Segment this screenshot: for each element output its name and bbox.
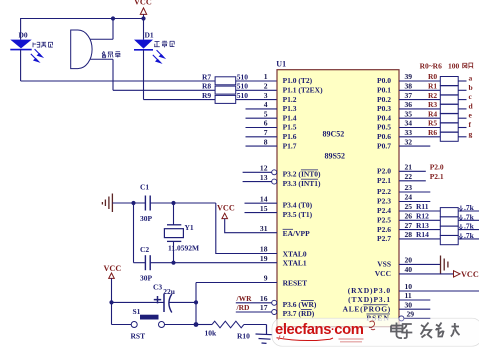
pin 4 P1.3 <box>246 108 278 110</box>
svg-text:P3.3 (INT1): P3.3 (INT1) <box>283 179 321 188</box>
svg-text:P0.3: P0.3 <box>377 104 391 113</box>
wire row pin2 <box>113 89 215 91</box>
svg-text:R14: R14 <box>416 230 429 239</box>
ground (crystal, left-pointing) <box>102 194 112 213</box>
svg-text:/RD: /RD <box>236 303 251 312</box>
wire RESET to pin 9 <box>196 282 277 284</box>
svg-text:30P: 30P <box>140 274 153 283</box>
node junction D1/VCC <box>141 16 145 20</box>
svg-text:34: 34 <box>405 119 413 128</box>
wire C1 right to jog <box>150 202 216 204</box>
svg-text:R7: R7 <box>202 72 211 81</box>
svg-text:d: d <box>469 101 474 110</box>
svg-text:P2.0: P2.0 <box>430 163 444 172</box>
svg-text:Y1: Y1 <box>185 223 194 232</box>
svg-text:R8: R8 <box>202 82 211 91</box>
svg-text:c: c <box>469 92 473 101</box>
svg-text:P0.4: P0.4 <box>377 113 391 122</box>
svg-text:P2.7: P2.7 <box>377 234 391 243</box>
pin 6 P1.5 <box>246 127 278 129</box>
resistor R10 10k <box>196 321 267 340</box>
svg-text:XTAL0: XTAL0 <box>283 250 307 259</box>
pin 25 P2.4 <box>399 210 479 212</box>
svg-text:P2.5: P2.5 <box>377 216 391 225</box>
svg-text:P1.6: P1.6 <box>283 132 297 141</box>
svg-text:37: 37 <box>405 91 413 100</box>
svg-text:f: f <box>469 120 472 129</box>
svg-text:RST: RST <box>131 331 146 340</box>
pin 29 PSEN <box>399 316 404 321</box>
svg-text:11.0592M: 11.0592M <box>168 244 199 253</box>
svg-text:27: 27 <box>405 221 413 230</box>
svg-text:23: 23 <box>405 183 413 192</box>
pin 17 P3.7/RD <box>236 311 272 313</box>
svg-text:R6: R6 <box>428 128 437 137</box>
pin 30 ALE/PROG <box>399 308 430 310</box>
capacitor C1 30P <box>140 183 153 224</box>
svg-text:19: 19 <box>260 254 268 263</box>
pin 39 P0.0 <box>399 80 440 82</box>
svg-text:1: 1 <box>264 72 268 81</box>
svg-text:36: 36 <box>405 100 413 109</box>
svg-text:22: 22 <box>405 172 413 181</box>
wire jog down to XTAL0 <box>216 203 277 254</box>
svg-text:28: 28 <box>405 230 413 239</box>
label 报警灯 (alarm lamp) <box>33 42 53 47</box>
node junction C1 left <box>131 201 135 205</box>
svg-text:VCC: VCC <box>104 264 122 273</box>
pin 12 P3.2/INT0 <box>243 171 272 173</box>
svg-text:P2.2: P2.2 <box>377 187 391 196</box>
node junction Y1 top <box>171 201 175 205</box>
svg-text:25: 25 <box>405 202 413 211</box>
svg-text:elecfans·com: elecfans·com <box>275 322 364 338</box>
svg-text:22u: 22u <box>163 287 175 296</box>
svg-text:100: 100 <box>448 61 460 70</box>
svg-text:P0.1: P0.1 <box>377 86 391 95</box>
watermark dianzifashaoyou (gray) <box>391 323 460 339</box>
svg-text:3: 3 <box>264 91 268 100</box>
node junction C3 left <box>109 300 113 304</box>
svg-text:(TXD)P3.1: (TXD)P3.1 <box>348 295 391 304</box>
power VCC (top) <box>134 0 152 18</box>
node junction RST <box>194 322 199 327</box>
svg-text:15: 15 <box>260 204 268 213</box>
svg-text:8: 8 <box>264 137 268 146</box>
node junction C3 right <box>194 300 198 304</box>
svg-text:510: 510 <box>237 91 249 100</box>
pin 20 VSS <box>399 263 440 265</box>
svg-text:a: a <box>469 74 473 83</box>
pin 26 P2.5 <box>399 219 479 221</box>
svg-text:R4: R4 <box>428 109 437 118</box>
svg-text:R0~R6: R0~R6 <box>420 61 442 70</box>
svg-text:2: 2 <box>264 82 268 91</box>
svg-text:.7k: .7k <box>464 212 475 221</box>
svg-text:20: 20 <box>405 256 413 265</box>
svg-text:21: 21 <box>405 163 413 172</box>
capacitor C3 22u <box>153 283 196 313</box>
svg-text:.7k: .7k <box>464 231 475 240</box>
svg-text:39: 39 <box>405 72 413 81</box>
resistor R8 <box>202 82 277 95</box>
svg-text:P1.4: P1.4 <box>283 113 297 122</box>
pin 40 VCC <box>399 273 454 275</box>
svg-text:10: 10 <box>405 282 413 291</box>
svg-text:33: 33 <box>405 128 413 137</box>
power VCC (EA) <box>217 204 277 233</box>
pin 8 P1.7 <box>246 145 278 147</box>
resistor R7 <box>202 72 277 85</box>
node junction Y1 bottom <box>171 261 175 265</box>
svg-text:C3: C3 <box>153 283 162 292</box>
svg-text:D0: D0 <box>19 31 28 40</box>
svg-text:P1.1 (T2EX): P1.1 (T2EX) <box>283 86 324 95</box>
LED D0 <box>10 18 42 81</box>
svg-text:R12: R12 <box>416 212 429 221</box>
svg-text:P0.7: P0.7 <box>377 141 391 150</box>
svg-text:P2.4: P2.4 <box>377 206 391 215</box>
svg-text:P3.4 (T0): P3.4 (T0) <box>283 200 313 209</box>
pin 11 P3.1 TXD <box>399 299 430 301</box>
svg-text:P3.2 (INT0): P3.2 (INT0) <box>283 170 321 179</box>
svg-text:P1.7: P1.7 <box>283 141 297 150</box>
pin 15 P3.5 <box>245 212 278 214</box>
svg-text:D1: D1 <box>145 31 154 40</box>
svg-text:VCC: VCC <box>217 204 235 213</box>
IC U1 89C52 <box>276 60 399 327</box>
pin 13 P3.3/INT1 <box>243 181 272 183</box>
watermark elecfans.com logo <box>275 321 375 342</box>
watermark band <box>272 318 479 346</box>
svg-text:P2.6: P2.6 <box>377 225 391 234</box>
svg-text:R3: R3 <box>428 100 437 109</box>
svg-text:R9: R9 <box>202 91 211 100</box>
svg-text:R0: R0 <box>428 72 437 81</box>
pin 21 P2.0 <box>399 170 426 172</box>
wire RESET vertical <box>195 283 197 325</box>
svg-text:b: b <box>469 83 473 92</box>
svg-text:P1.5: P1.5 <box>283 123 297 132</box>
svg-text:11: 11 <box>405 291 412 300</box>
pin 7 P1.6 <box>246 136 278 138</box>
pin 36 P0.3 <box>399 108 440 110</box>
svg-text:P2.1: P2.1 <box>377 176 391 185</box>
pin 28 P2.7 <box>399 238 479 240</box>
wire C1-C2 left vertical <box>133 203 135 263</box>
svg-text:P0.5: P0.5 <box>377 123 391 132</box>
pin 10 P3.0 RXD <box>399 290 479 292</box>
pin 29 overlay redraw <box>399 316 430 321</box>
ground (R10) <box>256 325 273 344</box>
pin 23 P2.2 <box>399 191 430 193</box>
label 蜂鸣器 (buzzer) <box>102 52 120 58</box>
svg-text:/WR: /WR <box>236 294 253 303</box>
pin 24 P2.3 <box>399 201 430 203</box>
svg-text:89C52: 89C52 <box>323 130 345 139</box>
wire to C3 <box>112 301 164 303</box>
svg-text:P2.0: P2.0 <box>377 167 391 176</box>
svg-text:P1.2: P1.2 <box>283 95 297 104</box>
svg-text:5: 5 <box>264 109 268 118</box>
svg-text:XTAL1: XTAL1 <box>283 259 307 268</box>
wire buzzer top to rail <box>112 19 114 40</box>
svg-text:P1.0 (T2): P1.0 (T2) <box>283 76 313 85</box>
svg-text:26: 26 <box>405 212 413 221</box>
node junction buzzer top <box>111 16 115 20</box>
power VCC (right) <box>454 271 461 277</box>
svg-text:7: 7 <box>264 128 268 137</box>
pin 35 P0.4 <box>399 117 440 119</box>
svg-text:g: g <box>469 129 473 138</box>
svg-text:17: 17 <box>260 303 268 312</box>
svg-text:RESET: RESET <box>283 279 308 288</box>
pin 16 P3.6/WR <box>236 302 272 304</box>
svg-text:U1: U1 <box>276 60 286 69</box>
svg-text:35: 35 <box>405 109 413 118</box>
svg-text:P3.5 (T1): P3.5 (T1) <box>283 210 313 219</box>
svg-text:VCC: VCC <box>134 0 152 7</box>
svg-text:P0.0: P0.0 <box>377 76 391 85</box>
capacitor C2 30P <box>134 245 153 283</box>
svg-text:R1: R1 <box>428 82 437 91</box>
buzzer 蜂鸣器 <box>71 30 113 69</box>
svg-text:S1: S1 <box>133 307 141 316</box>
wire row pin3 <box>144 99 216 101</box>
svg-text:R5: R5 <box>428 119 437 128</box>
svg-text:P2.1: P2.1 <box>430 172 444 181</box>
svg-text:ALE(PROG): ALE(PROG) <box>343 304 391 313</box>
pin 22 P2.1 <box>399 180 426 182</box>
svg-text:P3.7 (RD): P3.7 (RD) <box>283 309 315 318</box>
resistor R9 <box>202 91 277 104</box>
svg-text:R10: R10 <box>237 331 250 340</box>
svg-text:14: 14 <box>260 194 268 203</box>
svg-text:40: 40 <box>405 265 413 274</box>
label 正常灯 (normal lamp) <box>154 41 174 48</box>
pin 27 P2.6 <box>399 229 479 231</box>
svg-text:13: 13 <box>260 173 268 182</box>
svg-text:30P: 30P <box>140 214 153 223</box>
svg-text:e: e <box>469 111 473 120</box>
svg-text:P2.3: P2.3 <box>377 197 391 206</box>
svg-text:18: 18 <box>260 245 268 254</box>
svg-text:9: 9 <box>264 274 268 283</box>
pin 14 P3.4 <box>245 202 278 204</box>
wire row pin1 <box>21 80 216 82</box>
pin 34 P0.5 <box>399 127 440 129</box>
wire gnd to C1 <box>112 202 145 204</box>
pin 38 P0.1 <box>399 89 440 91</box>
svg-text:510: 510 <box>237 72 249 81</box>
svg-text:510: 510 <box>237 82 249 91</box>
svg-text:4: 4 <box>264 100 268 109</box>
svg-text:P1.3: P1.3 <box>283 104 297 113</box>
svg-text:R11: R11 <box>416 202 429 211</box>
pin 33 P0.6 <box>399 136 440 138</box>
svg-text:R13: R13 <box>416 221 429 230</box>
LED D1 <box>134 19 164 100</box>
svg-text:10k: 10k <box>205 329 218 338</box>
pin 32 P0.7 <box>399 145 430 147</box>
svg-text:24: 24 <box>405 193 413 202</box>
svg-text:P3.6 (WR): P3.6 (WR) <box>283 300 317 309</box>
svg-text:32: 32 <box>405 137 413 146</box>
svg-text:.7k: .7k <box>464 203 475 212</box>
svg-text:89S52: 89S52 <box>325 152 345 161</box>
svg-text:EA/VPP: EA/VPP <box>283 229 311 238</box>
pin 5 P1.4 <box>246 117 278 119</box>
crystal Y1 11.0592M <box>164 203 199 263</box>
svg-text:C2: C2 <box>140 245 149 254</box>
switch S1 RST <box>112 307 197 341</box>
svg-text:R2: R2 <box>428 91 437 100</box>
svg-text:.7k: .7k <box>464 222 475 231</box>
wire top rail <box>21 18 144 20</box>
svg-text:VCC: VCC <box>461 270 479 279</box>
svg-text:VCC: VCC <box>375 269 391 278</box>
pin 37 P0.2 <box>399 99 440 101</box>
svg-text:C1: C1 <box>140 183 149 192</box>
svg-text:P0.6: P0.6 <box>377 132 391 141</box>
net header R0~R6 100ohm <box>420 61 474 70</box>
svg-text:P0.2: P0.2 <box>377 95 391 104</box>
svg-text:(RXD)P3.0: (RXD)P3.0 <box>348 286 391 295</box>
svg-text:16: 16 <box>260 294 268 303</box>
wire buzzer bottom to row R8 <box>112 59 114 90</box>
svg-text:VSS: VSS <box>377 260 391 269</box>
svg-text:29: 29 <box>407 310 415 319</box>
ground (VSS, right-pointing) <box>441 256 448 274</box>
svg-text:12: 12 <box>260 164 268 173</box>
wire C2 to XTAL1 <box>150 262 277 264</box>
power VCC (reset) <box>104 264 122 325</box>
svg-text:6: 6 <box>264 119 268 128</box>
svg-text:31: 31 <box>260 224 268 233</box>
svg-text:38: 38 <box>405 82 413 91</box>
svg-text:30: 30 <box>405 300 413 309</box>
